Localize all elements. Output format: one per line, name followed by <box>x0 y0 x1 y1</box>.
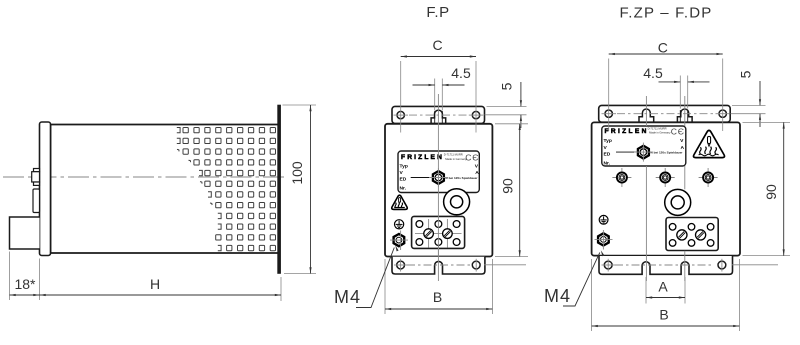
F.P cable entry double circle <box>444 189 470 215</box>
F.P top slot tab <box>431 110 446 123</box>
F.ZP dimension 90 <box>743 122 791 255</box>
F.P M4 earth screw <box>394 234 405 246</box>
svg-text:D-71711 MURR: D-71711 MURR <box>648 127 667 131</box>
F.P dimension 5 <box>485 106 527 114</box>
F.P warning triangle (hot surface) <box>392 195 408 209</box>
F.P dimension 90 <box>495 124 528 257</box>
left view rear end plate <box>278 105 281 274</box>
F.ZP top slot tabs <box>639 109 654 122</box>
svg-text:100: 100 <box>289 161 305 185</box>
F.ZP flange holes <box>605 110 726 117</box>
svg-text:Nr.: Nr. <box>604 161 611 167</box>
F.ZP warning triangle (hot surface) <box>694 130 725 157</box>
F.P flange centerline <box>409 114 468 116</box>
F.ZP dimension 5 <box>731 105 766 113</box>
svg-text:Nr.: Nr. <box>400 185 407 191</box>
svg-text:F.ZP – F.DP: F.ZP – F.DP <box>620 5 713 22</box>
F.ZP M4 earth screw <box>598 233 609 245</box>
F.P vertical centerline <box>437 94 439 281</box>
svg-text:H: H <box>150 276 160 292</box>
svg-text:B: B <box>433 289 442 305</box>
dimension 18* <box>10 252 40 301</box>
F.P top flange <box>392 106 485 123</box>
svg-text:4.5: 4.5 <box>451 65 471 81</box>
F.ZP dimension B <box>592 259 740 331</box>
svg-text:Typ: Typ <box>400 163 408 169</box>
terminal stud (bolt) on flange <box>32 169 40 186</box>
F.ZP earth symbol <box>599 215 608 224</box>
F.ZP label hex nut <box>638 146 649 159</box>
svg-text:M4: M4 <box>334 287 361 307</box>
svg-text:90: 90 <box>763 184 779 200</box>
F.P label hex nut <box>433 171 444 184</box>
svg-text:5: 5 <box>738 70 754 78</box>
F.P dimension B <box>385 259 492 314</box>
F.ZP top flange <box>599 105 731 122</box>
perforation pattern <box>177 128 276 251</box>
svg-text:Made in Germany: Made in Germany <box>445 157 467 161</box>
F.P dimension 4.5 <box>435 79 443 111</box>
F.P bottom flange with key notch <box>392 257 485 274</box>
svg-text:% bei 120s Spieldauer: % bei 120s Spieldauer <box>445 176 478 180</box>
svg-text:90: 90 <box>499 178 515 194</box>
dimension 100 <box>283 105 317 274</box>
svg-text:B: B <box>659 307 668 323</box>
svg-text:Made in Germany: Made in Germany <box>649 131 671 135</box>
F.ZP terminal block <box>666 218 718 251</box>
svg-text:CЄ: CЄ <box>465 152 479 162</box>
F.P earth symbol <box>395 220 404 229</box>
svg-text:CЄ: CЄ <box>671 127 685 137</box>
left view front flange <box>40 122 51 256</box>
svg-text:C: C <box>432 37 442 53</box>
F.P body <box>385 124 492 257</box>
F.P terminal block <box>412 216 465 248</box>
svg-text:18*: 18* <box>14 276 36 292</box>
svg-text:ED: ED <box>604 152 611 158</box>
svg-text:A: A <box>658 279 668 295</box>
F.ZP terminal screws <box>677 230 687 240</box>
F.P rating label plate <box>398 151 479 193</box>
svg-text:C: C <box>658 39 668 55</box>
F.ZP rating label plate <box>602 126 686 166</box>
F.ZP flange centerline <box>617 113 714 115</box>
svg-text:5: 5 <box>499 82 515 90</box>
F.ZP bottom flange with two key notches <box>599 256 733 274</box>
svg-text:% bei 120s Spieldauer: % bei 120s Spieldauer <box>650 151 683 155</box>
F.ZP dimension C <box>609 59 723 132</box>
svg-text:Typ: Typ <box>604 138 612 144</box>
dimension H <box>280 277 282 301</box>
F.ZP body <box>592 122 740 255</box>
svg-text:D-71711 MURR: D-71711 MURR <box>444 153 463 157</box>
F.ZP vertical centerlines through slots <box>646 96 684 281</box>
F.P dimension C <box>401 61 476 133</box>
svg-text:4.5: 4.5 <box>643 65 663 81</box>
F.ZP element screws (3x) <box>612 168 631 187</box>
F.ZP cable entry double circle <box>665 190 691 216</box>
small block under stud <box>33 189 40 213</box>
F.ZP dimension A <box>646 277 685 304</box>
svg-text:ED: ED <box>400 176 407 182</box>
svg-text:M4: M4 <box>544 286 571 306</box>
left view body outline <box>51 125 279 254</box>
F.P terminal screws <box>424 229 434 239</box>
left side view centerline <box>3 176 285 178</box>
terminal box bottom left <box>10 217 40 249</box>
svg-text:F.P: F.P <box>426 4 449 21</box>
F.ZP dimension 4.5 <box>680 76 687 109</box>
svg-text:A: A <box>475 170 479 176</box>
F.P flange holes <box>397 111 480 118</box>
